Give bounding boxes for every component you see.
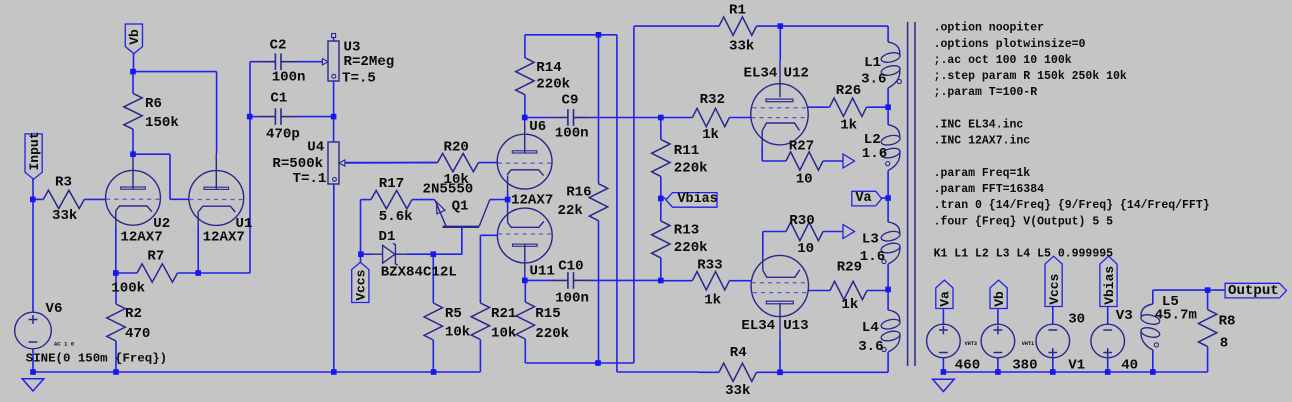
svg-text:L4: L4 bbox=[862, 320, 879, 336]
svg-text:8: 8 bbox=[1220, 336, 1228, 352]
svg-text:220k: 220k bbox=[674, 240, 708, 256]
svg-text:R33: R33 bbox=[697, 257, 722, 273]
svg-text:V6: V6 bbox=[46, 301, 63, 317]
svg-text:470: 470 bbox=[125, 326, 150, 342]
svg-text:R4: R4 bbox=[730, 345, 747, 361]
svg-text:R1: R1 bbox=[729, 3, 746, 19]
svg-text:Vb: Vb bbox=[127, 29, 142, 45]
svg-text:.param FFT=16384: .param FFT=16384 bbox=[934, 183, 1045, 196]
svg-text:1k: 1k bbox=[841, 297, 858, 313]
svg-text:.INC 12AX7.inc: .INC 12AX7.inc bbox=[934, 135, 1031, 148]
svg-text:V1: V1 bbox=[1068, 358, 1085, 374]
svg-text:R11: R11 bbox=[674, 143, 699, 159]
svg-text:U13: U13 bbox=[783, 318, 808, 334]
svg-text:1k: 1k bbox=[702, 127, 719, 143]
svg-text:220k: 220k bbox=[536, 76, 570, 92]
svg-text:D1: D1 bbox=[379, 229, 396, 245]
svg-text:EL34: EL34 bbox=[741, 318, 775, 334]
svg-text:100k: 100k bbox=[111, 281, 145, 297]
svg-text:1k: 1k bbox=[840, 118, 857, 134]
svg-text:R7: R7 bbox=[147, 249, 164, 265]
svg-text:33k: 33k bbox=[52, 208, 78, 224]
svg-text:SINE(0 150m {Freq}): SINE(0 150m {Freq}) bbox=[26, 351, 167, 365]
svg-text:.options plotwinsize=0: .options plotwinsize=0 bbox=[934, 38, 1086, 51]
svg-text:R21: R21 bbox=[491, 306, 516, 322]
svg-text:R27: R27 bbox=[789, 139, 814, 155]
svg-text:33k: 33k bbox=[725, 383, 751, 399]
svg-text:Va: Va bbox=[938, 291, 953, 307]
svg-text:12AX7: 12AX7 bbox=[511, 192, 553, 208]
svg-text:.INC EL34.inc: .INC EL34.inc bbox=[934, 119, 1024, 132]
svg-text:.param Freq=1k: .param Freq=1k bbox=[934, 167, 1031, 180]
svg-text:Va: Va bbox=[856, 191, 872, 206]
svg-text:C1: C1 bbox=[270, 91, 287, 107]
svg-text:Vbias: Vbias bbox=[1102, 266, 1117, 305]
svg-text:100n: 100n bbox=[555, 291, 589, 307]
svg-text:.tran 0 {14/Freq} {9/Freq} {14: .tran 0 {14/Freq} {9/Freq} {14/Freq/FFT} bbox=[934, 199, 1210, 212]
svg-text:R8: R8 bbox=[1219, 314, 1236, 330]
svg-text:1k: 1k bbox=[704, 292, 721, 308]
svg-text:12AX7: 12AX7 bbox=[120, 230, 162, 246]
svg-text:220k: 220k bbox=[535, 326, 569, 342]
svg-text:U12: U12 bbox=[784, 65, 809, 81]
svg-text:3.6: 3.6 bbox=[861, 71, 886, 87]
svg-text:22k: 22k bbox=[558, 203, 584, 219]
svg-text:;.step param R 150k 250k 10k: ;.step param R 150k 250k 10k bbox=[934, 70, 1127, 83]
svg-text:Input: Input bbox=[27, 131, 42, 170]
svg-text:12AX7: 12AX7 bbox=[203, 230, 245, 246]
svg-text:;.ac oct 100 10 100k: ;.ac oct 100 10 100k bbox=[934, 54, 1072, 67]
svg-text:Q1: Q1 bbox=[452, 199, 469, 215]
svg-text:R16: R16 bbox=[566, 184, 591, 200]
svg-text:Vbias: Vbias bbox=[678, 192, 718, 207]
svg-text:VHT3: VHT3 bbox=[965, 341, 977, 347]
svg-text:U11: U11 bbox=[530, 264, 555, 280]
svg-text:R2: R2 bbox=[125, 306, 142, 322]
svg-text:R32: R32 bbox=[700, 92, 725, 108]
svg-text:Vccs: Vccs bbox=[354, 269, 369, 300]
svg-text:1.6: 1.6 bbox=[862, 146, 887, 162]
svg-text:L3: L3 bbox=[862, 232, 879, 248]
svg-text:Vccs: Vccs bbox=[1047, 273, 1062, 304]
svg-text:220k: 220k bbox=[674, 160, 708, 176]
svg-text:C10: C10 bbox=[558, 259, 583, 275]
svg-text:R13: R13 bbox=[674, 223, 699, 239]
svg-text:R30: R30 bbox=[789, 213, 814, 229]
svg-text:R15: R15 bbox=[535, 306, 560, 322]
svg-text:380: 380 bbox=[1012, 358, 1037, 374]
svg-text:100n: 100n bbox=[272, 69, 306, 85]
svg-text:5.6k: 5.6k bbox=[379, 209, 413, 225]
svg-text:R14: R14 bbox=[536, 60, 562, 76]
svg-text:R5: R5 bbox=[445, 306, 462, 322]
svg-text:40: 40 bbox=[1121, 358, 1138, 374]
svg-text:1.6: 1.6 bbox=[860, 249, 885, 265]
svg-text:Output: Output bbox=[1228, 283, 1279, 299]
svg-text:R6: R6 bbox=[145, 96, 162, 112]
svg-text:EL34: EL34 bbox=[744, 65, 778, 81]
svg-text:R=500k: R=500k bbox=[272, 156, 323, 172]
svg-text:C9: C9 bbox=[562, 93, 579, 109]
svg-text:45.7m: 45.7m bbox=[1155, 307, 1197, 323]
svg-text:T=.5: T=.5 bbox=[342, 71, 376, 87]
svg-text:VHT1: VHT1 bbox=[1022, 341, 1034, 347]
svg-text:L1: L1 bbox=[864, 55, 881, 71]
svg-text:R=2Meg: R=2Meg bbox=[344, 54, 395, 70]
svg-text:U6: U6 bbox=[529, 119, 546, 135]
svg-text:;.param T=100-R: ;.param T=100-R bbox=[934, 86, 1038, 99]
svg-text:2N5550: 2N5550 bbox=[423, 182, 474, 198]
svg-text:470p: 470p bbox=[266, 127, 300, 143]
svg-text:R20: R20 bbox=[444, 139, 469, 155]
svg-text:.option noopiter: .option noopiter bbox=[934, 22, 1045, 35]
svg-text:10: 10 bbox=[796, 172, 813, 188]
svg-text:Vb: Vb bbox=[992, 291, 1007, 307]
svg-text:R29: R29 bbox=[837, 260, 862, 276]
svg-text:.four {Freq} V(Output) 5 5: .four {Freq} V(Output) 5 5 bbox=[934, 215, 1114, 228]
svg-text:3.6: 3.6 bbox=[858, 339, 883, 355]
svg-text:BZX84C12L: BZX84C12L bbox=[381, 265, 457, 281]
svg-text:10k: 10k bbox=[491, 326, 517, 342]
svg-text:10: 10 bbox=[797, 241, 814, 257]
svg-text:V3: V3 bbox=[1116, 308, 1133, 324]
svg-text:K1 L1 L2 L3 L4 L5 0.999995: K1 L1 L2 L3 L4 L5 0.999995 bbox=[934, 248, 1114, 261]
svg-text:R17: R17 bbox=[379, 176, 404, 192]
svg-text:10k: 10k bbox=[445, 325, 471, 341]
svg-text:100n: 100n bbox=[555, 126, 589, 142]
svg-text:U4: U4 bbox=[307, 139, 324, 155]
svg-text:AC 1 0: AC 1 0 bbox=[54, 341, 75, 348]
svg-text:30: 30 bbox=[1068, 312, 1085, 328]
svg-text:C2: C2 bbox=[270, 37, 287, 53]
svg-text:150k: 150k bbox=[145, 115, 179, 131]
svg-text:R26: R26 bbox=[836, 83, 861, 99]
svg-text:R3: R3 bbox=[55, 175, 72, 191]
svg-text:460: 460 bbox=[955, 358, 980, 374]
svg-text:33k: 33k bbox=[729, 39, 755, 55]
svg-text:T=.1: T=.1 bbox=[293, 171, 327, 187]
